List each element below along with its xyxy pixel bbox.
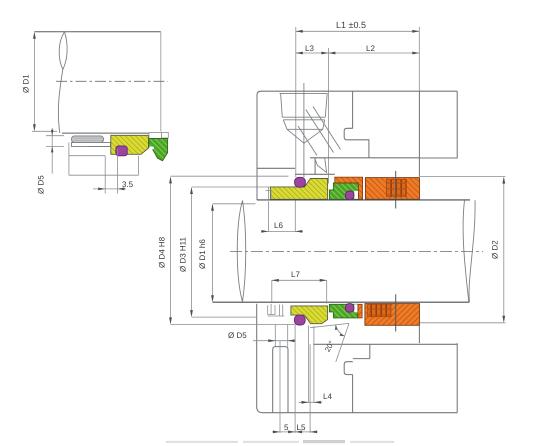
svg-text:L6: L6 <box>274 221 283 230</box>
svg-text:Ø D2: Ø D2 <box>491 240 500 259</box>
dimension OD1 (left view) <box>32 34 57 132</box>
green seat (left view) <box>149 139 168 161</box>
snap ring vertical bottom <box>352 375 354 413</box>
svg-text:L1 ±0.5: L1 ±0.5 <box>336 20 366 30</box>
step horizontal bottom <box>353 358 370 360</box>
dimension 3.5 (left view) <box>93 149 126 194</box>
o-ring purple bottom <box>294 315 305 325</box>
centerline main <box>230 250 483 252</box>
spring coil inset bottom <box>368 304 392 316</box>
snap ring vertical <box>352 91 354 128</box>
dimension OD5 (left view) <box>46 128 64 174</box>
yellow rotating ring bottom <box>291 306 328 324</box>
extension OD3 top <box>192 186 271 188</box>
shaft top line (left view) <box>34 31 160 33</box>
big orange gland top <box>365 178 419 200</box>
dimension OD4 H8 <box>170 179 172 324</box>
white notch in green top <box>354 191 358 199</box>
yellow step strip (left view) <box>149 139 157 146</box>
o-ring purple in green bottom <box>345 304 354 313</box>
extension OD4 bottom <box>171 323 296 325</box>
white notch in green bottom <box>354 304 358 312</box>
dimension L6 <box>261 201 303 233</box>
collar lower bar <box>72 143 111 147</box>
svg-text:Ø D4 H8: Ø D4 H8 <box>158 236 167 268</box>
shaft right edge (left view) <box>160 32 162 132</box>
20 degree callout <box>310 323 349 362</box>
housing top edge bottom <box>313 343 457 345</box>
svg-text:L3: L3 <box>305 44 314 53</box>
svg-text:Ø D5: Ø D5 <box>228 331 247 340</box>
o-ring purple in green top <box>345 191 354 200</box>
svg-text:5: 5 <box>284 423 289 432</box>
svg-text:L7: L7 <box>291 270 300 279</box>
green seat top <box>329 183 358 199</box>
housing right edge bottom <box>456 343 458 413</box>
spring seat quad <box>315 158 327 173</box>
shaft bottom line (left view) <box>62 132 161 134</box>
big orange gland bottom <box>365 304 420 326</box>
dimension OD1 h6 <box>212 205 214 301</box>
green seat bottom <box>329 304 358 318</box>
svg-text:Ø D1: Ø D1 <box>22 74 31 93</box>
shaft break lens (left view) <box>59 32 64 70</box>
spring pocket trapezoid <box>280 93 328 143</box>
dimension OD3 H11 <box>191 189 193 316</box>
small orange retainer top <box>335 177 363 199</box>
extension line L3/L2 boundary going down <box>327 48 329 184</box>
step to bottom edge <box>353 140 369 158</box>
spring pocket centerline vertical <box>303 83 305 177</box>
shaft break right <box>463 200 469 302</box>
extension line L1 left going down to o-ring <box>295 91 297 177</box>
housing bottom edge left part <box>257 167 295 169</box>
small orange retainer bottom <box>358 304 362 318</box>
housing right inner edge <box>418 91 420 176</box>
svg-text:L4: L4 <box>323 392 332 401</box>
spring coil inset top <box>387 179 407 196</box>
yellow rotating face (left view) <box>111 135 149 154</box>
extension OD4 top <box>171 175 289 177</box>
housing outer top edge <box>257 91 457 95</box>
svg-text:Ø D5: Ø D5 <box>37 175 46 194</box>
snap ring hook bottom <box>344 362 353 375</box>
gray collar capsule <box>72 136 104 143</box>
dimension L7 <box>272 280 327 303</box>
projection box (left view) <box>69 143 139 176</box>
drive pin line top <box>395 171 397 209</box>
shaft OD1 top stub <box>213 203 256 205</box>
faint cropped caption artifact at page bottom <box>166 440 394 443</box>
spring wire diagonals <box>298 107 341 156</box>
housing left edge <box>256 95 258 200</box>
gland bolt pin bottom <box>273 347 288 413</box>
shaft bottom line <box>213 301 470 303</box>
orange edge to housing <box>418 325 420 343</box>
svg-text:3.5: 3.5 <box>122 180 134 189</box>
svg-text:L5: L5 <box>297 423 306 432</box>
dimensions 5 and L5 <box>272 325 318 433</box>
collar detail bottom left <box>268 304 285 316</box>
dimension L4 <box>299 326 323 404</box>
dimension L3 <box>296 52 329 54</box>
svg-text:Ø D3 H11: Ø D3 H11 <box>179 236 188 272</box>
sleeve top line <box>257 199 470 201</box>
step vertical at 315 <box>314 158 316 175</box>
snap ring hook <box>344 128 353 140</box>
dimension L2 <box>328 52 419 54</box>
collar detail top left <box>266 187 272 199</box>
svg-text:L2: L2 <box>366 44 375 53</box>
o-ring purple top <box>295 177 306 187</box>
housing right box <box>419 91 457 158</box>
retainer tabs white (left view) <box>149 133 162 139</box>
yellow rotating ring top <box>270 179 327 200</box>
housing bottom left edge <box>257 304 458 413</box>
svg-text:Ø D1 h6: Ø D1 h6 <box>198 239 207 269</box>
o-ring purple (left view) <box>116 146 127 156</box>
dimension L1 <box>296 27 420 91</box>
shaft break left <box>237 201 245 302</box>
housing bottom edge right part <box>310 157 419 159</box>
step vertical bottom <box>369 344 371 358</box>
drive pin line bottom <box>395 294 397 331</box>
centerline (left view) <box>56 80 168 82</box>
line to small orange <box>295 173 335 175</box>
